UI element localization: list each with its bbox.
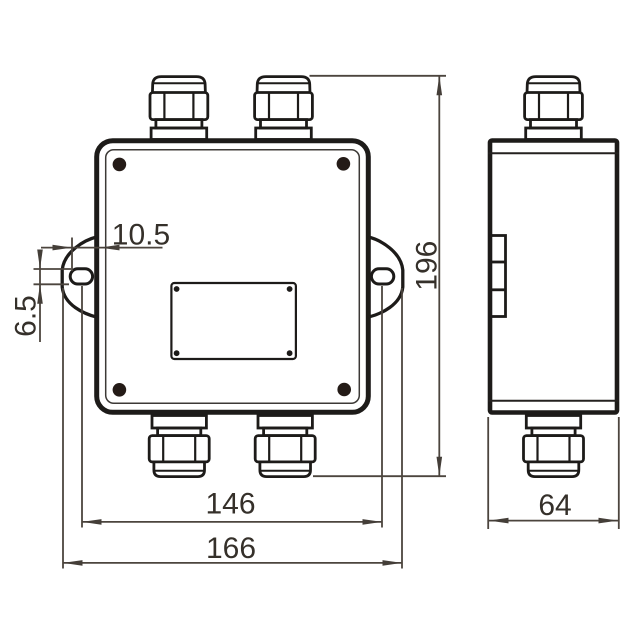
dimension 166: left arrowhead [63,560,83,566]
dimension 6.5: slot-top extension line [34,268,72,270]
dimension 6.5: slot-bottom extension line [34,283,70,285]
cable gland G2 (front top-right) [255,77,313,140]
dimension 196: bottom arrowhead [437,457,443,477]
left ear slot [70,269,92,284]
svg-text:64: 64 [538,489,571,522]
lid screw bottom-left [113,383,127,397]
left mounting ear [62,237,97,317]
dimension 6.5: upper arrowhead [37,250,43,270]
nameplate screw top-left [174,286,180,292]
nameplate screw top-right [287,286,293,292]
svg-text:10.5: 10.5 [112,219,170,252]
front view lid inner edge line [106,150,360,404]
dimension 10.5: left arrowhead [53,245,73,251]
dimension 6.5: dimension line [39,250,41,342]
dimension 166: right arrowhead [383,560,403,566]
svg-text:6.5: 6.5 [10,295,43,337]
front view enclosure outer body [97,141,369,413]
dimension 196: bottom extension line [313,475,446,477]
dimension 10.5: slot-edge extension line [71,238,73,272]
dimension 64: right arrowhead [599,518,619,524]
dimension 64: left arrowhead [489,518,509,524]
dimension 146: dimension line [82,521,382,523]
dimension 64: right extension line [618,417,620,529]
right mounting ear [368,237,403,317]
side view lid joint line bottom [488,400,619,402]
dimension 196: dimension line [438,76,440,476]
dimension 10.5: right arrowhead [100,245,120,251]
svg-text:196: 196 [411,241,444,291]
cable gland G4 (front bottom-right) [255,416,315,477]
right ear slot [371,269,393,284]
nameplate [171,283,296,359]
dimension 146: left extension line [81,286,83,528]
svg-text:166: 166 [206,532,256,565]
side view mounting ear tab [491,236,506,317]
dimension 166: dimension line [63,562,402,564]
lid screw top-left [113,158,127,172]
dimension 64: dimension line [488,520,619,522]
dimension 64: left extension line [487,417,489,529]
side view lid joint line top [488,152,619,154]
cable gland G1 (front top-left) [150,77,208,140]
dimension 146: right arrowhead [363,519,383,525]
dimension 196: top extension line [310,75,447,77]
dimension 6.5: lower arrowhead [37,284,43,304]
cable gland G3 (front bottom-left) [149,416,209,477]
dimension 146: right extension line [381,286,383,528]
cable gland G6 (side bottom) [524,416,584,477]
dimension 196: top arrowhead [437,76,443,96]
nameplate screw bottom-left [174,350,180,356]
dimension 166: left extension line [62,288,64,569]
cable gland G5 (side top) [525,77,583,140]
dimension 166: right extension line [401,288,403,569]
side view enclosure body [490,141,617,413]
nameplate screw bottom-right [287,350,293,356]
lid screw bottom-right [337,383,351,397]
dimension 10.5: dimension line [41,247,163,249]
dimension 146: left arrowhead [82,519,102,525]
lid screw top-right [337,157,351,171]
svg-text:146: 146 [205,488,255,521]
